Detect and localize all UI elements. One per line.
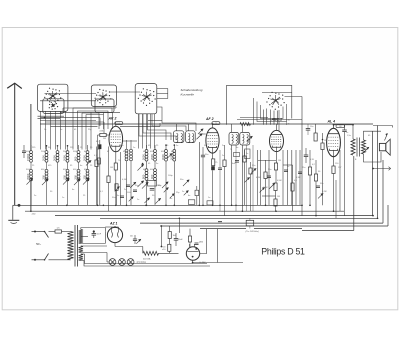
AF2 grid lead bbox=[199, 133, 206, 135]
wire HT riser right bbox=[104, 231, 106, 243]
svg-text:0,1M: 0,1M bbox=[256, 177, 261, 179]
svg-text:2n: 2n bbox=[176, 145, 178, 147]
wire S3 drops bbox=[138, 114, 140, 149]
wire S2 drops bbox=[98, 113, 100, 130]
wire osc nested route 3 bbox=[253, 98, 255, 125]
band switch S1b enclosure bbox=[43, 99, 64, 114]
power transformer primary bbox=[68, 232, 74, 260]
volume pot arrow bbox=[269, 183, 275, 189]
AK2 screen lead bbox=[123, 140, 137, 142]
arrows lower mid bbox=[130, 182, 136, 188]
svg-text:Kurzwelle: Kurzwelle bbox=[181, 92, 195, 96]
trimmer arrows mid bbox=[115, 187, 120, 192]
tube socket circle bbox=[186, 247, 199, 260]
wire osc drop right bbox=[278, 110, 280, 131]
svg-text:5000: 5000 bbox=[142, 154, 146, 160]
svg-text:AL 4: AL 4 bbox=[327, 120, 336, 124]
wire left stubs SW1 bbox=[38, 115, 65, 117]
detector short horizontals bbox=[258, 160, 276, 162]
wire riser right 1 bbox=[372, 131, 374, 215]
svg-text:0,5M: 0,5M bbox=[277, 180, 282, 182]
wire osc drop left bbox=[266, 109, 268, 125]
svg-text:Philips D 51: Philips D 51 bbox=[261, 246, 305, 256]
wire bus 5 bbox=[140, 222, 383, 224]
AK2 grid resistor bbox=[100, 133, 106, 136]
IF trimmer bbox=[247, 136, 253, 142]
oscillator trimmer bbox=[197, 134, 203, 140]
wire speaker left loop bbox=[365, 142, 381, 144]
resistor AF2 right bbox=[223, 160, 226, 167]
power transformer core bbox=[74, 225, 76, 267]
svg-text:1M: 1M bbox=[278, 160, 281, 162]
wire S1-S2 link b bbox=[40, 100, 96, 102]
svg-text:10n: 10n bbox=[310, 126, 313, 128]
band switch S1 wafer lower contacts bbox=[52, 104, 55, 107]
ABC1 leads bbox=[276, 152, 278, 163]
svg-text:2n: 2n bbox=[60, 129, 62, 131]
wire AK2 screen drop bbox=[120, 152, 122, 205]
speaker bbox=[379, 143, 385, 150]
IF can 1 bbox=[229, 132, 239, 145]
band switch S2 wafer bbox=[102, 96, 105, 99]
svg-text:1M: 1M bbox=[110, 167, 113, 169]
AL4 grid cap node bbox=[322, 139, 324, 141]
svg-text:0,5M: 0,5M bbox=[263, 187, 268, 189]
svg-text:4n: 4n bbox=[117, 195, 119, 197]
wire secondary loop bbox=[364, 131, 382, 140]
svg-text:50n: 50n bbox=[130, 236, 133, 238]
svg-text:2000: 2000 bbox=[83, 155, 87, 161]
secondary trimmer arrow bbox=[363, 147, 369, 153]
pilot lamp 2 bbox=[119, 259, 126, 266]
speaker connection wires bbox=[364, 126, 366, 131]
svg-text:300: 300 bbox=[42, 175, 46, 180]
caps at 4nF under IF bbox=[235, 160, 239, 162]
junction dots coil bank bbox=[46, 145, 48, 147]
svg-text:400: 400 bbox=[150, 174, 154, 179]
wire bus 3 bbox=[55, 215, 373, 217]
AL4 anode lead bbox=[333, 125, 335, 129]
svg-text:2n: 2n bbox=[34, 195, 36, 197]
wire bus 4 bbox=[100, 217, 378, 219]
mixer tube AK2 bbox=[109, 126, 123, 152]
padder capacitor block bbox=[148, 181, 157, 187]
svg-text:50n: 50n bbox=[252, 165, 255, 167]
AF2 grid trimmer arrow bbox=[198, 129, 203, 134]
band switch S2b enclosure bbox=[95, 99, 114, 113]
wire primary top bbox=[334, 124, 354, 126]
wire riser x354 bbox=[353, 156, 355, 231]
band switch S1a enclosure bbox=[38, 84, 68, 111]
svg-text:4 V 0,6 A: 4 V 0,6 A bbox=[137, 261, 147, 264]
svg-text:AF 2: AF 2 bbox=[205, 117, 214, 121]
wire HT center tap bbox=[81, 236, 88, 238]
svg-text:50n: 50n bbox=[112, 197, 115, 199]
oscillator coil row 1 bbox=[145, 150, 148, 153]
junction HT cap bbox=[93, 230, 95, 232]
small box under IF bbox=[234, 153, 240, 157]
wire S3 right stubs bbox=[157, 88, 168, 90]
svg-text:8000: 8000 bbox=[26, 173, 30, 179]
power transformer HT secondary bbox=[79, 230, 83, 244]
svg-text:5n: 5n bbox=[287, 166, 289, 168]
wire routing under switches c bbox=[51, 125, 98, 127]
mains terminal top bbox=[34, 231, 36, 233]
svg-text:0,2M: 0,2M bbox=[322, 191, 327, 193]
resistor under AK2 cathode 2 bbox=[115, 184, 118, 191]
svg-text:50n: 50n bbox=[180, 179, 183, 181]
svg-text:50nF: 50nF bbox=[178, 239, 183, 241]
wire antenna to ground bus bbox=[13, 204, 19, 206]
svg-text:2n: 2n bbox=[222, 145, 224, 147]
filter resistor 1 bbox=[168, 232, 171, 239]
svg-text:4n: 4n bbox=[170, 198, 172, 200]
wire socket right loop bbox=[200, 229, 207, 254]
power transformer heater winding 2 bbox=[79, 254, 83, 261]
cap small bus bbox=[218, 221, 222, 223]
wire antenna coupling bbox=[30, 104, 32, 151]
svg-text:2000: 2000 bbox=[150, 154, 154, 160]
wire heater w2 to bus bbox=[81, 253, 85, 255]
cap near socket bbox=[195, 242, 199, 244]
antenna bbox=[14, 83, 16, 205]
detector tube ABC1 bbox=[270, 130, 284, 151]
node antenna terminal bbox=[18, 204, 20, 206]
detector pot arrows bbox=[245, 178, 250, 183]
wire AZ1 cathode to filter bbox=[115, 246, 143, 248]
wire AZ1 anode top bbox=[111, 227, 113, 229]
IF can drops bbox=[231, 145, 233, 205]
AL4 cathode lead bbox=[333, 157, 335, 166]
svg-text:50~: 50~ bbox=[36, 242, 41, 246]
svg-text:AK 2: AK 2 bbox=[108, 117, 117, 121]
svg-text:1M: 1M bbox=[277, 196, 280, 198]
wire AVC bus left bbox=[40, 120, 96, 122]
filter resistor 2 bbox=[168, 244, 171, 251]
mains switch contacts bbox=[35, 231, 45, 233]
heater wires center bbox=[206, 229, 208, 264]
grid stopper resistor bbox=[321, 143, 324, 150]
wire S1 drops bbox=[40, 111, 42, 149]
wires detector verticals bbox=[257, 150, 259, 205]
svg-text:800: 800 bbox=[142, 174, 146, 179]
band switch S4 wafer bbox=[274, 99, 277, 102]
svg-text:AZ 1: AZ 1 bbox=[109, 222, 117, 226]
AK2 cathode lead bbox=[115, 152, 117, 163]
svg-text:1n: 1n bbox=[44, 129, 46, 131]
svg-text:0,3M: 0,3M bbox=[296, 177, 301, 179]
oscillator coil pair 1 bbox=[125, 149, 128, 152]
AL4 voltage pill bbox=[336, 125, 345, 128]
svg-text:4n: 4n bbox=[236, 147, 238, 149]
svg-text:4n: 4n bbox=[80, 165, 82, 167]
antenna series cap bbox=[22, 150, 26, 152]
wire routing loop 5 bbox=[157, 107, 196, 131]
svg-text:2n: 2n bbox=[246, 153, 248, 155]
wire riser right 3 bbox=[382, 160, 384, 223]
wire routing under switches e bbox=[60, 111, 120, 113]
wire B+ bus bbox=[40, 123, 373, 125]
svg-text:2n: 2n bbox=[124, 189, 126, 191]
resistor AVC bbox=[264, 172, 267, 179]
svg-text:=MΩ: =MΩ bbox=[32, 214, 37, 216]
choke on B+ bus bbox=[240, 122, 251, 125]
svg-text:2000: 2000 bbox=[42, 155, 46, 161]
svg-text:2n: 2n bbox=[222, 155, 224, 157]
pilot lamp 3 bbox=[127, 259, 134, 266]
field coil resistor bbox=[143, 251, 159, 255]
resistor grid AL4 bbox=[308, 167, 311, 175]
electrolytic at AK2 cathode bbox=[98, 144, 101, 149]
external speaker terminal bbox=[373, 168, 391, 170]
svg-text:1M: 1M bbox=[324, 140, 327, 142]
oscillator switch enclosure loop bbox=[227, 85, 292, 124]
IF can top leads bbox=[231, 124, 233, 132]
wire runs SW2 to coil bank bbox=[73, 108, 112, 150]
resistor R volume chain 1 bbox=[274, 163, 277, 170]
power transformer heater winding 1 bbox=[79, 246, 83, 253]
svg-text:50n: 50n bbox=[268, 169, 271, 171]
trimmer arrows oscillator bbox=[137, 181, 143, 187]
AF2 cathode lead bbox=[212, 153, 214, 159]
svg-text:300: 300 bbox=[74, 175, 78, 180]
band switch S3 wafer bbox=[146, 96, 149, 99]
svg-text:25n: 25n bbox=[302, 167, 305, 169]
wire AF2 anode to bus bbox=[212, 121, 214, 124]
cap row under AK2 region bbox=[126, 184, 130, 186]
wire speaker top bbox=[373, 125, 393, 127]
wire lower to transformer bbox=[49, 259, 71, 261]
output transformer core bbox=[356, 138, 358, 157]
band switch S1 wafer bbox=[52, 95, 55, 98]
AK2 anode lead bbox=[115, 122, 117, 127]
svg-text:2000: 2000 bbox=[63, 155, 67, 161]
resistor chain 3 bbox=[274, 199, 277, 206]
wire osc top link bbox=[262, 92, 292, 94]
svg-text:(4V): (4V) bbox=[199, 241, 203, 244]
rectifier tube AZ1 bbox=[107, 227, 122, 242]
svg-text:500: 500 bbox=[63, 175, 67, 180]
svg-text:50n: 50n bbox=[135, 185, 138, 187]
wires under IF cans bbox=[235, 145, 237, 211]
junction dots buses bbox=[93, 231, 95, 233]
svg-text:4n: 4n bbox=[72, 189, 74, 191]
wire riser x183 bbox=[182, 223, 184, 253]
wire heater w1 bbox=[81, 245, 107, 247]
wire osc nested route 2 bbox=[261, 105, 284, 119]
oscillator can 2 bbox=[186, 131, 196, 143]
wire lamps bbox=[107, 261, 109, 263]
oscillator can 1 bbox=[174, 131, 184, 143]
wire routing loop 4 bbox=[152, 114, 186, 131]
wire routing under switches d bbox=[63, 107, 116, 109]
wire osc drops bbox=[263, 110, 265, 125]
wire bus 6 bbox=[160, 225, 388, 227]
wire routing loop 1 bbox=[139, 114, 176, 140]
wire routing under switches b bbox=[46, 121, 105, 123]
wire top AVC lines bbox=[240, 117, 268, 119]
ground bbox=[12, 205, 14, 220]
svg-text:50n: 50n bbox=[120, 145, 123, 147]
fuse bbox=[49, 231, 56, 233]
grid feed wire AK2 bbox=[103, 122, 105, 133]
dots on ground bus bbox=[103, 205, 105, 207]
speaker switch bbox=[385, 134, 388, 141]
wire routing under switches c2 bbox=[120, 125, 160, 127]
wire bus 7 bbox=[200, 228, 246, 230]
svg-text:4n: 4n bbox=[188, 195, 190, 197]
resistor chain 2 bbox=[274, 183, 277, 191]
wire group right drop bbox=[301, 205, 303, 215]
antenna coil bank row 1 bbox=[30, 151, 33, 154]
wire bus 8 bottom bbox=[302, 230, 354, 232]
tone cap at AL4 anode bbox=[342, 129, 347, 131]
AF2 voltage pill bbox=[212, 122, 220, 125]
wire heater drop x218 bbox=[217, 229, 219, 263]
svg-text:800: 800 bbox=[74, 156, 78, 161]
oscillator coil row 2 bbox=[145, 169, 148, 172]
wire S1-S2 link a bbox=[45, 93, 97, 95]
wire field to socket bbox=[159, 252, 179, 254]
detector small resistors bbox=[243, 156, 246, 162]
wire S4 right leg bbox=[285, 96, 303, 98]
svg-text:2n: 2n bbox=[182, 191, 184, 193]
wire S2-S3 link a bbox=[110, 91, 140, 93]
band switch S3 enclosure bbox=[135, 84, 157, 114]
resistor diode load bbox=[291, 183, 294, 191]
svg-text:2M: 2M bbox=[103, 138, 106, 140]
svg-text:1n: 1n bbox=[133, 147, 135, 149]
component on bus 2 bbox=[207, 201, 213, 205]
output transformer primary bbox=[351, 139, 355, 155]
wire routing loop 2 bbox=[143, 114, 171, 140]
resistor screen AL4 bbox=[314, 133, 317, 141]
svg-text:Tr: Tr bbox=[230, 149, 232, 151]
cap 4nF on bus bbox=[188, 200, 195, 205]
AK2 grid lead bbox=[106, 134, 109, 136]
svg-text:1,5n: 1,5n bbox=[347, 135, 351, 137]
antenna coil bank row 2 bbox=[30, 169, 33, 172]
wire riser x161 bbox=[160, 226, 162, 247]
trimmer arrows antenna coils bbox=[26, 178, 32, 184]
mains terminal bottom bbox=[34, 259, 36, 261]
wire ground bus bbox=[19, 204, 302, 206]
filter cap 50nF bbox=[174, 238, 179, 240]
wire routing vertical joints bbox=[99, 118, 101, 126]
svg-text:3000: 3000 bbox=[161, 154, 165, 160]
svg-text:4Ω 5GA: 4Ω 5GA bbox=[143, 258, 151, 261]
detector small caps bbox=[267, 175, 271, 177]
cap 10nF B+ bbox=[306, 128, 311, 130]
svg-text:50n: 50n bbox=[320, 183, 323, 185]
wire osc nested route 1 bbox=[257, 102, 287, 122]
wire riser x179 bbox=[178, 218, 180, 233]
AL4 cathode resistor bbox=[332, 166, 335, 174]
svg-text:1n: 1n bbox=[62, 197, 64, 199]
IF tube AF2 bbox=[206, 128, 219, 153]
resistor x108 bbox=[107, 176, 110, 183]
svg-text:1n: 1n bbox=[208, 197, 210, 199]
wire HT bottom bbox=[81, 243, 106, 245]
caps AF2 area bbox=[201, 154, 205, 156]
svg-text:5n: 5n bbox=[346, 132, 348, 134]
svg-text:250: 250 bbox=[339, 126, 342, 128]
coupling cap to AL4 bbox=[304, 154, 309, 156]
wire socket bottom bbox=[192, 260, 194, 262]
AK2 voltage pill bbox=[115, 122, 123, 125]
svg-text:(2M): (2M) bbox=[100, 131, 104, 133]
verticals right section bbox=[301, 205, 303, 209]
wire fuse to transformer bbox=[62, 231, 71, 233]
wire primary bottom bbox=[352, 155, 355, 156]
cap on HT bbox=[92, 233, 97, 235]
wire HT top to AZ1 bbox=[80, 228, 82, 230]
svg-text:50n: 50n bbox=[205, 154, 208, 156]
wire riser right 2 bbox=[377, 126, 379, 219]
output transformer secondary bbox=[362, 140, 366, 154]
AK2 cathode resistor bbox=[114, 163, 117, 170]
junction dots oscillator bank bbox=[165, 144, 167, 146]
cathode resistor socket bbox=[188, 236, 191, 242]
IF can 2 bbox=[240, 132, 250, 145]
wire riser right 4 bbox=[387, 205, 389, 226]
svg-text:50nF: 50nF bbox=[97, 234, 102, 236]
svg-text:Schalterstellung: Schalterstellung bbox=[181, 88, 203, 92]
wire routing under switches a bbox=[41, 117, 101, 119]
small box right of field bbox=[195, 190, 199, 195]
svg-text:(If = 128 kHz): (If = 128 kHz) bbox=[246, 231, 259, 233]
svg-text:150: 150 bbox=[83, 175, 87, 180]
antenna coil bank drops bbox=[30, 162, 32, 169]
resistor bias bbox=[314, 174, 317, 181]
cap box on heater bus bbox=[246, 220, 254, 226]
wire bus 2 bbox=[25, 210, 344, 212]
band switch S2a enclosure bbox=[91, 85, 116, 107]
output tube AL4 bbox=[327, 128, 341, 156]
svg-text:15000: 15000 bbox=[26, 153, 30, 161]
cap 50nF near AZ1 bbox=[133, 238, 137, 240]
svg-text:1n: 1n bbox=[137, 199, 139, 201]
AF2 anode lead bbox=[212, 124, 214, 128]
resistor left column bbox=[97, 158, 100, 164]
svg-text:3n: 3n bbox=[156, 163, 158, 165]
svg-text:3000: 3000 bbox=[53, 155, 57, 161]
resistor under S2 bbox=[95, 160, 98, 167]
svg-text:0,1M: 0,1M bbox=[122, 179, 127, 181]
wire routing loop 3 bbox=[148, 114, 167, 140]
pilot lamp 1 bbox=[109, 259, 116, 266]
